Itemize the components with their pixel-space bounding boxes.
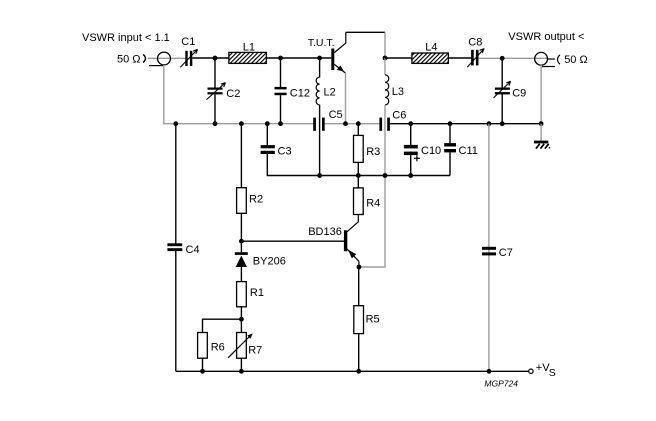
input connector circle — [158, 52, 171, 65]
svg-text:VSWR output <: VSWR output < — [508, 31, 584, 43]
node L2 bottom — [317, 173, 322, 178]
node C10 top — [408, 121, 413, 126]
svg-text:50 Ω: 50 Ω — [117, 54, 141, 66]
svg-text:R3: R3 — [366, 146, 380, 158]
node C10 bottom — [408, 173, 413, 178]
node R6 bottom — [200, 369, 205, 374]
capacitor C12 — [275, 87, 287, 95]
node C7 bottom — [487, 369, 492, 374]
capacitor C11 — [444, 124, 456, 176]
node BD136 emitter — [357, 265, 362, 270]
wire L3 bottom through C6 gap to lower rail (gray) — [384, 105, 386, 176]
svg-text:C5: C5 — [329, 109, 343, 121]
svg-text:C3: C3 — [278, 146, 292, 158]
svg-text:R1: R1 — [250, 287, 264, 299]
svg-text:MGP724: MGP724 — [484, 378, 518, 388]
wire C12 top stub — [280, 58, 282, 87]
lower rail — [267, 175, 450, 177]
bottom rail — [176, 370, 529, 372]
wire L4 to C8 — [448, 57, 471, 59]
wire TUT emitter down (gray) — [345, 73, 347, 124]
wire C12 bottom stub — [280, 95, 282, 124]
upper rail gray left segment — [163, 123, 313, 125]
resistor R2 — [237, 124, 247, 253]
wire L2 through C5 gap to lower rail — [319, 105, 321, 176]
capacitor C2 (trimmer) — [207, 83, 226, 100]
wire C9 column — [501, 58, 503, 87]
wire output circle down to rail (gray) — [540, 65, 542, 124]
resistor R7 (variable) — [228, 333, 253, 372]
node C9 top — [500, 56, 505, 61]
svg-text:C1: C1 — [181, 36, 195, 48]
wire input circle down to upper rail — [163, 65, 165, 124]
inductor L2 — [316, 77, 319, 105]
wire C4 column top — [175, 124, 177, 244]
resistor R5 — [354, 267, 364, 371]
node L3 line lower rail — [383, 173, 388, 178]
node R3 bottom — [356, 173, 361, 178]
capacitor C4 — [167, 243, 182, 251]
capacitor C5 — [313, 118, 325, 131]
node C4 top — [173, 121, 178, 126]
svg-text:C10: C10 — [421, 145, 441, 157]
wire C1 to L1 — [192, 57, 229, 59]
node output ground — [539, 121, 544, 126]
output coax arc — [558, 55, 560, 64]
capacitor C7 — [482, 124, 496, 372]
wire C2 top stub — [214, 58, 216, 88]
output connector pin wire — [547, 58, 555, 60]
svg-text:C4: C4 — [186, 244, 200, 256]
transistor TUT — [331, 32, 346, 73]
node emitter rail — [343, 121, 348, 126]
wire L2 top stub — [319, 58, 321, 77]
transistor BD136 — [344, 230, 359, 267]
wire L1 to TUT base — [266, 57, 331, 59]
resistor R3 — [354, 124, 364, 176]
node TUT output — [383, 56, 388, 61]
svg-text:VSWR input < 1.1: VSWR input < 1.1 — [82, 32, 170, 44]
svg-text:C9: C9 — [512, 88, 526, 100]
node C12 top — [278, 56, 283, 61]
node R7 bottom — [239, 369, 244, 374]
node C9 bottom — [500, 121, 505, 126]
inductor L3 — [385, 75, 389, 105]
resistor R1 — [237, 282, 247, 333]
svg-text:R4: R4 — [366, 197, 380, 209]
output connector tail — [542, 66, 555, 68]
svg-text:L2: L2 — [324, 87, 336, 99]
svg-text:50 Ω: 50 Ω — [564, 54, 588, 66]
upper rail black right segment — [390, 123, 541, 125]
wire L3 feed lower (gray) — [360, 176, 385, 268]
wire branch to R6 — [203, 319, 242, 332]
svg-text:C8: C8 — [468, 37, 482, 49]
input coax arc — [143, 54, 145, 62]
svg-text:C12: C12 — [290, 88, 310, 100]
svg-text:C11: C11 — [459, 145, 478, 157]
inductor L1 — [229, 52, 267, 63]
node BD136 base branch — [239, 239, 244, 244]
inductor L4 — [412, 53, 449, 63]
wire output node to L4 — [385, 57, 412, 59]
node C2 top — [213, 56, 218, 61]
capacitor C6 — [379, 118, 390, 131]
node R3 top — [356, 121, 361, 126]
node R2 top — [239, 121, 244, 126]
svg-text:L3: L3 — [392, 86, 404, 98]
node R1 bottom branch — [239, 317, 244, 322]
wire collector down to output node (gray) — [384, 32, 386, 58]
capacitor C8 (trimmer) — [467, 49, 484, 68]
node C12 bottom — [278, 121, 283, 126]
svg-text:S: S — [549, 367, 556, 379]
wire C9 bottom stub — [501, 94, 503, 123]
node C2 bottom — [213, 121, 218, 126]
svg-text:C7: C7 — [499, 247, 513, 259]
node C7 top — [487, 121, 492, 126]
capacitor C9 (trimmer) — [494, 81, 511, 98]
wire C8 through output circle (gray) — [479, 57, 548, 59]
svg-text:R6: R6 — [211, 341, 225, 353]
ground symbol — [534, 141, 550, 149]
wire input arc through circle to C1 (gray) — [148, 57, 186, 59]
wire output ground stub (gray) — [540, 124, 542, 141]
capacitor C3 — [261, 124, 275, 176]
svg-text:C6: C6 — [392, 110, 406, 122]
wire C4 column bottom — [175, 251, 177, 371]
upper rail gray middle segment — [325, 123, 380, 125]
svg-text:R5: R5 — [366, 314, 380, 326]
resistor R4 — [347, 176, 363, 232]
svg-text:BD136: BD136 — [308, 226, 342, 238]
svg-text:C2: C2 — [226, 88, 240, 100]
svg-text:T.U.T.: T.U.T. — [308, 37, 335, 49]
svg-text:BY206: BY206 — [253, 255, 286, 267]
wire TUT collector top — [346, 31, 385, 33]
node L2 top — [317, 56, 322, 61]
output connector circle — [535, 52, 548, 65]
capacitor C1 — [180, 49, 197, 67]
capacitor C10 — [404, 124, 420, 176]
node R5 bottom — [356, 369, 361, 374]
resistor R6 — [198, 333, 208, 372]
wire L3 feed (gray) — [384, 58, 386, 75]
node C11 top — [448, 121, 453, 126]
svg-text:R7: R7 — [248, 344, 262, 356]
svg-text:L1: L1 — [243, 41, 255, 53]
svg-text:L4: L4 — [425, 41, 437, 53]
diode BY206 — [235, 252, 248, 281]
input connector tail — [149, 65, 164, 67]
wire BD136 base — [241, 240, 344, 242]
wire C2 bottom stub — [214, 94, 216, 123]
terminal +VS — [529, 369, 533, 373]
svg-text:R2: R2 — [249, 194, 263, 206]
node C3 top — [265, 121, 270, 126]
